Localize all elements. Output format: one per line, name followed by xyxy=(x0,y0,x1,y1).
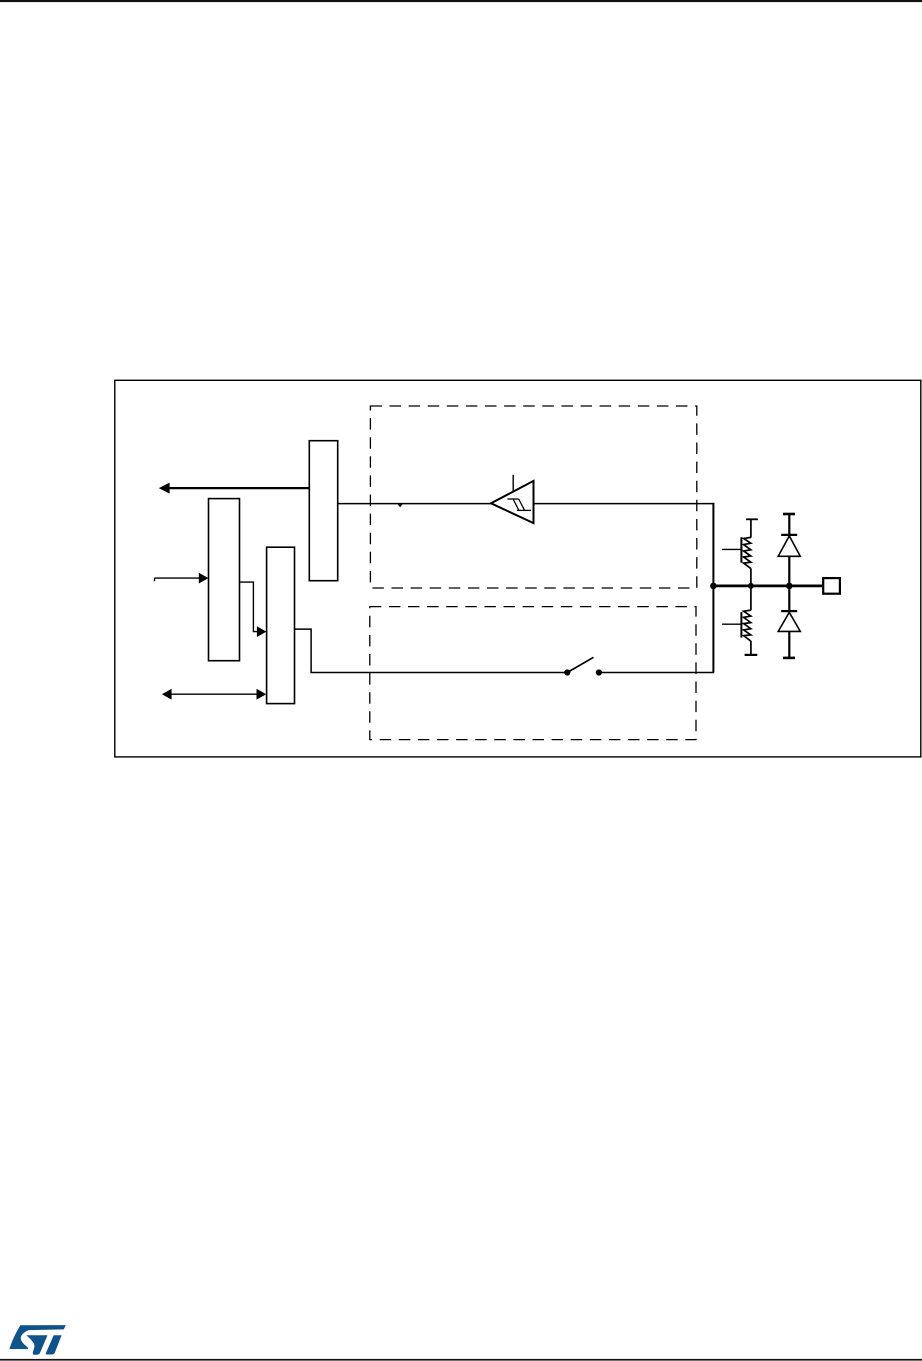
wire right vertical xyxy=(712,503,714,673)
block output data register xyxy=(267,547,295,703)
read/write double arrow xyxy=(162,689,266,700)
node junction pull resistors xyxy=(748,583,754,589)
footer rule xyxy=(0,1359,922,1361)
wire switch to right vertical xyxy=(599,672,714,674)
wire input data register to schmitt trigger xyxy=(338,503,492,505)
read arrow xyxy=(159,483,310,494)
block input data register xyxy=(309,441,337,581)
write arrow xyxy=(154,573,208,584)
I/O pin pad xyxy=(823,578,840,594)
VDD bar diode xyxy=(783,513,795,516)
ST logo xyxy=(9,1325,65,1355)
node junction diodes xyxy=(786,583,793,590)
VDD bar pull-up xyxy=(746,518,758,520)
main I/O wire xyxy=(713,585,823,588)
figure frame xyxy=(115,380,921,757)
protection diode to VDD xyxy=(778,514,800,586)
wire schmitt trigger to pad node xyxy=(534,503,715,505)
block bit set/reset registers xyxy=(209,499,240,661)
wire output data register to switch xyxy=(295,629,565,672)
protection diode to VSS xyxy=(778,586,800,658)
junction notch on wire xyxy=(398,504,403,507)
dashed box output driver xyxy=(370,607,696,740)
resistor pull-down xyxy=(722,586,751,655)
dashed box input driver xyxy=(370,406,696,588)
switch xyxy=(564,657,602,675)
VSS bar diode xyxy=(783,657,795,660)
wire bit set/reset to output data register xyxy=(240,582,267,637)
VSS bar pull-down xyxy=(745,654,758,656)
resistor pull-up xyxy=(722,519,751,586)
node junction left xyxy=(710,583,717,590)
schmitt trigger xyxy=(491,475,534,523)
header rule xyxy=(0,0,922,2)
